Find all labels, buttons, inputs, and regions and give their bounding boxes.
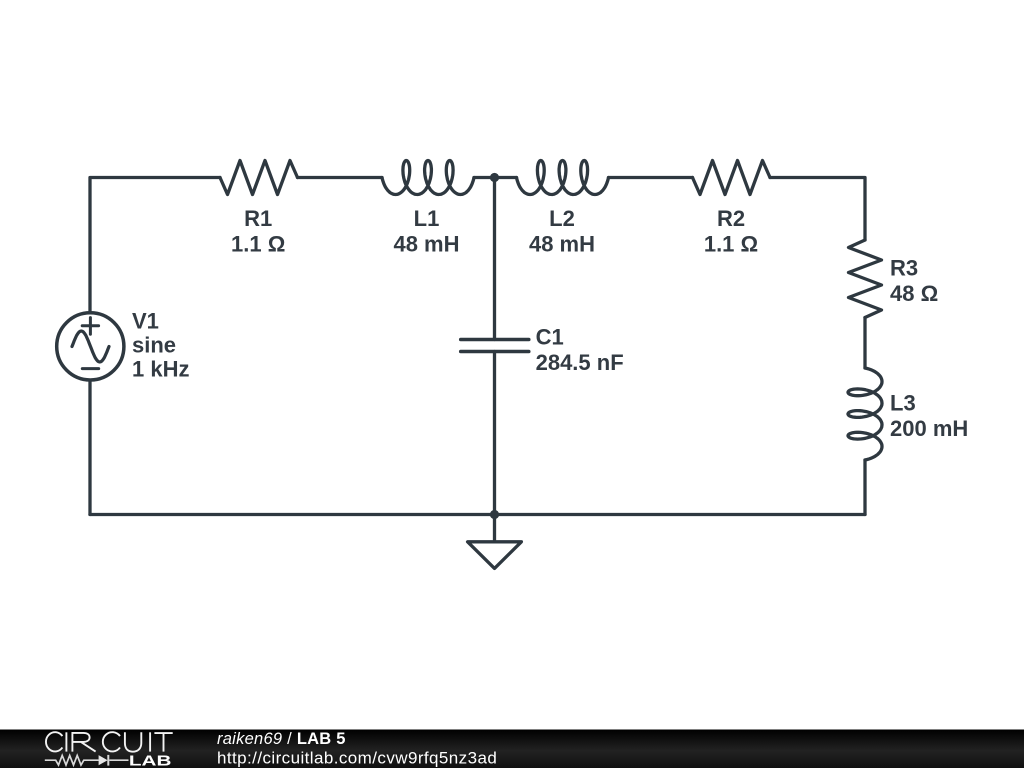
wire: bottom rail bbox=[90, 513, 865, 516]
svg-text:L2: L2 bbox=[549, 206, 575, 231]
wire: node A down to C1 top plate bbox=[493, 178, 496, 340]
CircuitLab logo wordmark CIRCUIT (drawn) bbox=[46, 732, 173, 752]
svg-text:1 kHz: 1 kHz bbox=[132, 357, 189, 382]
V1 minus sign bbox=[82, 367, 98, 370]
svg-text:R2: R2 bbox=[717, 206, 745, 231]
node A junction dot bbox=[490, 173, 499, 182]
inductor L1 bbox=[382, 161, 474, 195]
capacitor C1 top plate bbox=[461, 338, 529, 342]
svg-text:raiken69 / LAB 5: raiken69 / LAB 5 bbox=[217, 730, 346, 748]
svg-text:48 mH: 48 mH bbox=[529, 231, 595, 256]
logo mini-schematic wire and resistor bbox=[45, 755, 99, 765]
svg-text:1.1 Ω: 1.1 Ω bbox=[231, 231, 285, 256]
svg-text:C1: C1 bbox=[536, 325, 564, 350]
wire: L3 down to bottom rail bbox=[863, 460, 866, 515]
node B junction dot bbox=[490, 510, 499, 519]
svg-text:L1: L1 bbox=[414, 206, 440, 231]
logo mini-schematic diode cathode bar bbox=[107, 755, 109, 766]
resistor R2 bbox=[693, 161, 771, 195]
voltage source V1 circle bbox=[57, 313, 124, 380]
svg-text:R1: R1 bbox=[244, 206, 272, 231]
svg-text:48 Ω: 48 Ω bbox=[890, 281, 938, 306]
resistor R1 bbox=[220, 161, 298, 195]
svg-text:L3: L3 bbox=[890, 390, 916, 415]
logo mini-schematic wire to LAB bbox=[109, 759, 128, 761]
wire: left branch top (V1 plus terminal up to top rail and right to R1) bbox=[90, 178, 220, 313]
wire: L1 through node A to L2 bbox=[474, 176, 517, 179]
wire: R2 to top-right corner down to R3 bbox=[770, 178, 865, 241]
wire: L2 to R2 bbox=[609, 176, 693, 179]
voltage source V1 sine waveform bbox=[72, 331, 109, 362]
logo mini-schematic diode triangle bbox=[99, 755, 108, 765]
ground symbol bbox=[468, 515, 522, 569]
svg-text:284.5 nF: 284.5 nF bbox=[536, 350, 624, 375]
inductor L2 bbox=[517, 161, 609, 195]
inductor L3 bbox=[848, 368, 882, 460]
V1 plus sign bbox=[82, 318, 98, 335]
svg-text:200 mH: 200 mH bbox=[890, 416, 968, 441]
svg-text:R3: R3 bbox=[890, 255, 918, 280]
svg-text:sine: sine bbox=[132, 333, 176, 358]
wire: V1 minus terminal down to bottom rail bbox=[88, 381, 91, 515]
resistor R3 bbox=[849, 240, 882, 318]
svg-text:LAB: LAB bbox=[129, 752, 172, 768]
svg-text:http://circuitlab.com/cvw9rfq5: http://circuitlab.com/cvw9rfq5nz3ad bbox=[217, 749, 497, 768]
svg-text:1.1 Ω: 1.1 Ω bbox=[704, 231, 758, 256]
svg-text:48 mH: 48 mH bbox=[393, 231, 459, 256]
wire: R3 to L3 bbox=[863, 318, 866, 369]
capacitor C1 bottom plate bbox=[461, 350, 529, 354]
wire: C1 bottom plate down to node B bbox=[493, 352, 496, 515]
wire: R1 to L1 bbox=[298, 176, 383, 179]
svg-text:V1: V1 bbox=[132, 309, 159, 334]
